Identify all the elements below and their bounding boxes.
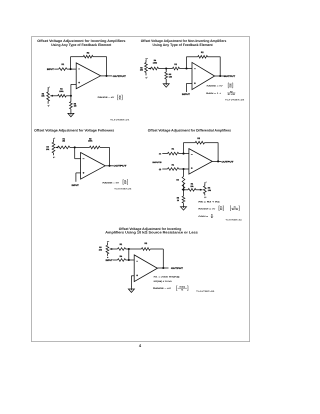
svg-text:10k: 10k (208, 189, 212, 192)
formula RANGE fig3 (103, 179, 128, 185)
wire inverting input fig3 (75, 147, 81, 158)
svg-text:R4: R4 (120, 255, 123, 258)
svg-text:OUTPUT: OUTPUT (113, 75, 127, 78)
svg-text:TL/H/7357–22: TL/H/7357–22 (225, 98, 244, 101)
potentiometer R3 fig5 (99, 241, 118, 260)
svg-text:R1: R1 (172, 148, 174, 151)
node non-inverting input fig4 (182, 168, 184, 170)
svg-text:4: 4 (139, 343, 142, 348)
svg-text:OUTPUT: OUTPUT (113, 165, 127, 168)
resistor R3 fig4 (176, 169, 184, 191)
wire R2 to output fig3 (100, 147, 110, 165)
resistor R1 fig2 (173, 63, 180, 70)
wire non-inverting input fig3 (76, 173, 81, 182)
wire output fig2 (215, 75, 226, 77)
svg-text:2M: 2M (62, 140, 65, 143)
svg-text:RS(R4) ≤ 10 kΩ: RS(R4) ≤ 10 kΩ (154, 280, 173, 283)
node inverting input fig5 (128, 259, 130, 261)
resistor R5 fig1 (70, 96, 77, 109)
node output fig3 (108, 165, 110, 167)
formula RANGE fig4 (198, 206, 239, 212)
svg-text:R4: R4 (119, 97, 121, 100)
svg-text:INPUTS: INPUTS (153, 161, 163, 164)
svg-text:RANGE = ±V: RANGE = ±V (207, 84, 224, 87)
resistor R2 fig3 (88, 137, 100, 148)
svg-text:R2: R2 (197, 137, 200, 140)
op-amp U2 (192, 62, 215, 89)
node offset junction fig4 (182, 189, 184, 191)
svg-text:OUTPUT: OUTPUT (171, 267, 184, 270)
svg-text:10k: 10k (46, 148, 50, 151)
svg-text:TL/H/7357–24: TL/H/7357–24 (226, 219, 242, 222)
wire feedback fig2 (187, 57, 221, 76)
resistor R4 fig2 (151, 59, 159, 70)
wire R4 to potentiometer fig4 (196, 189, 203, 191)
figure 5 title (105, 227, 198, 235)
svg-text:−: − (206, 196, 207, 198)
svg-text:100: 100 (169, 75, 172, 78)
resistor R2 fig2 (198, 51, 208, 58)
svg-text:+: + (54, 138, 55, 140)
svg-text:R1 + R5: R1 + R5 (228, 93, 235, 96)
potentiometer R3 fig1 (41, 86, 57, 107)
svg-text:R2: R2 (124, 182, 126, 185)
node upper fig5 (128, 248, 130, 250)
svg-text:100k: 100k (59, 90, 64, 93)
svg-text:10k: 10k (41, 95, 45, 98)
wire feedback fig4 (184, 143, 219, 162)
svg-text:Amplifiers Using 10 kΩ Source: Amplifiers Using 10 kΩ Source Resistance… (105, 231, 198, 235)
svg-text:10k: 10k (99, 249, 103, 252)
wire non-inverting input fig2 (186, 84, 192, 93)
wire non-inverting input fig1 (71, 84, 76, 95)
svg-text:R2: R2 (87, 52, 90, 55)
svg-text:Using Any Type of Feedback Ele: Using Any Type of Feedback Element (51, 43, 112, 47)
svg-text:R1: R1 (174, 63, 177, 66)
formula RANGE fig1 (98, 95, 123, 101)
resistor R2 fig4 (195, 137, 204, 144)
op-amp U3 (81, 153, 106, 180)
svg-text:(−): (−) (159, 153, 162, 156)
node output fig5 (162, 267, 164, 269)
wire R1 to op-amp fig1 (67, 68, 76, 70)
svg-text:(+): (+) (159, 168, 162, 171)
wire R3 to junction fig4 (183, 184, 185, 197)
svg-text:100k: 100k (153, 62, 158, 65)
svg-text:R1: R1 (62, 63, 65, 66)
wire non-inverting input fig5 (131, 276, 134, 286)
node R4/R5 junction fig1 (70, 95, 72, 97)
formula GAIN fig4 (198, 214, 213, 220)
wire output fig5 (157, 267, 168, 269)
resistor R1 fig5 (118, 243, 126, 251)
svg-text:RANGE = ±V: RANGE = ±V (98, 96, 115, 99)
wire R4 to junction fig1 (66, 95, 71, 97)
node output fig1 (105, 75, 107, 77)
svg-text:Offset Voltage Adjustment for: Offset Voltage Adjustment for Differenti… (148, 128, 231, 132)
svg-text:+: + (206, 182, 207, 184)
svg-text:OUTPUT: OUTPUT (224, 75, 236, 78)
svg-text:R1 = 2000 RS(R4): R1 = 2000 RS(R4) (154, 276, 180, 279)
resistor R4 fig5 (113, 255, 126, 261)
svg-text:TL/H/7357–23: TL/H/7357–23 (114, 187, 131, 190)
svg-text:R1: R1 (181, 288, 183, 291)
formula RANGE fig5 (153, 286, 188, 292)
svg-text:R1: R1 (172, 163, 174, 166)
node output fig2 (219, 75, 221, 77)
svg-text:R4: R4 (229, 85, 231, 88)
wire R1 to node fig5 (126, 248, 142, 250)
formula GAIN fig2 (206, 90, 235, 96)
page border frame (32, 37, 250, 342)
wire R1 to R2 fig3 (70, 146, 90, 148)
svg-text:+: + (49, 87, 50, 89)
ground fig1 (68, 109, 74, 117)
wire R1 to op-amp fig2 (180, 68, 193, 70)
svg-text:RANGE = ±V: RANGE = ±V (103, 181, 120, 184)
svg-text:Offset Voltage Adjustment for: Offset Voltage Adjustment for Voltage Fo… (34, 128, 114, 132)
wire feedback top fig1 (71, 57, 107, 76)
svg-text:RANGE = ±V: RANGE = ±V (198, 207, 216, 210)
resistor R4 fig1 (58, 88, 66, 98)
ground fig5 (130, 286, 132, 290)
svg-text:R5 = R3 + R4: R5 = R3 + R4 (198, 201, 219, 204)
svg-text:+: + (147, 58, 148, 60)
wire R2 to output fig5 (150, 249, 163, 268)
svg-text:RANGE = ±V: RANGE = ±V (153, 287, 172, 290)
node inverting branch fig3 (74, 146, 76, 148)
svg-text:TL/H/7357–25: TL/H/7357–25 (196, 290, 214, 293)
resistor R6 fig4 (177, 196, 185, 203)
formula RANGE fig2 (207, 83, 233, 89)
svg-text:−: − (147, 77, 148, 79)
svg-text:R1: R1 (120, 243, 123, 246)
op-amp U4 (189, 149, 212, 175)
svg-text:10k: 10k (140, 69, 144, 72)
svg-text:Using Any Type of Feedback Ele: Using Any Type of Feedback Element (153, 43, 214, 47)
wire output fig4 (212, 160, 221, 162)
svg-text:1k: 1k (177, 199, 180, 202)
svg-text:+: + (108, 241, 109, 243)
svg-text:TL/H/7357–21: TL/H/7357–21 (110, 118, 129, 121)
wire R4 to node fig2 (159, 68, 173, 70)
potentiometer R3 fig2 (140, 58, 151, 80)
node inverting input fig1 (70, 68, 72, 70)
svg-text:R2: R2 (145, 242, 148, 245)
figure 1 title (37, 39, 125, 47)
wire to non-inverting input fig4 (179, 168, 189, 170)
resistor R2 (feedback, fig1) (83, 52, 93, 58)
resistor R1 fig1 (54, 63, 67, 71)
svg-text:R3: R3 (176, 179, 178, 182)
wire R4 to op-amp fig5 (126, 259, 135, 261)
node R5 junction fig2 (165, 67, 167, 69)
svg-text:100k: 100k (88, 140, 93, 143)
wire to inverting input fig4 (179, 153, 189, 155)
figure 2 title (141, 39, 227, 47)
resistor R2 fig5 (141, 242, 150, 250)
resistor R1 upper fig4 (162, 148, 178, 155)
ground fig2 (163, 79, 169, 87)
op-amp U5 (134, 255, 157, 282)
svg-text:OUTPUT: OUTPUT (221, 160, 234, 163)
svg-text:10k: 10k (190, 185, 194, 188)
ground fig4 (181, 203, 187, 210)
svg-text:INPUT: INPUT (106, 259, 114, 262)
node output fig4 (217, 160, 219, 162)
svg-text:1M: 1M (74, 105, 77, 108)
svg-text:INPUT: INPUT (182, 93, 191, 96)
wire node to node fig5 (128, 249, 130, 260)
svg-text:GAIN =: GAIN = (198, 215, 209, 218)
resistor R1 lower fig4 (162, 163, 178, 170)
wire output fig3 (105, 165, 113, 167)
potentiometer R5 fig4 (203, 181, 211, 199)
svg-text:−: − (108, 257, 109, 259)
svg-text:−: − (54, 156, 55, 158)
svg-text:INPUT: INPUT (47, 68, 55, 71)
resistor R1 fig3 (58, 137, 70, 148)
wire output fig1 (101, 75, 112, 77)
svg-text:INPUT: INPUT (72, 184, 80, 187)
resistor R5 fig2 (165, 69, 172, 80)
svg-text:R2: R2 (201, 51, 204, 54)
svg-text:GAIN = 1 +: GAIN = 1 + (206, 92, 222, 95)
op-amp U1 (76, 63, 100, 89)
node inverting input fig4 (182, 153, 184, 155)
potentiometer R3 fig3 (46, 137, 58, 159)
node inverting input fig2 (185, 67, 187, 69)
resistor R4 fig4 (184, 182, 196, 191)
svg-text:−: − (49, 105, 50, 107)
